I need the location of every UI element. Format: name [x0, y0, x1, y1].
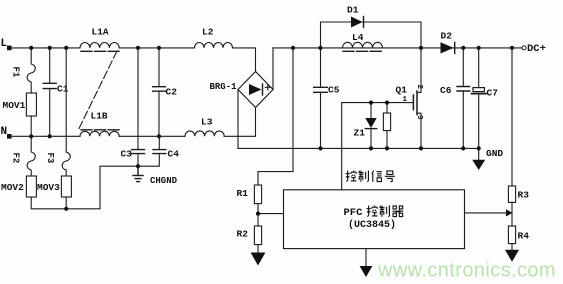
capacitor C6 [457, 48, 470, 148]
capacitor C7 (electrolytic) [472, 48, 486, 148]
svg-text:R2: R2 [237, 229, 249, 240]
svg-text:R1: R1 [237, 188, 249, 199]
wire R3 to R4 [511, 202, 513, 226]
diode D1 [351, 17, 364, 28]
svg-text:PFC: PFC [344, 207, 364, 219]
capacitor C3 (Y-cap from L) [132, 48, 145, 166]
svg-text:(UC3845): (UC3845) [348, 219, 396, 231]
PFC controller U1 box [284, 190, 465, 249]
svg-text:C3: C3 [121, 149, 133, 160]
wire MOV3 bottom [65, 197, 67, 209]
wire N rail to L3 [119, 135, 185, 137]
wire L rail left [9, 47, 80, 49]
varistor MOV3 [61, 176, 71, 197]
core of L1B (dashed) [81, 129, 119, 131]
svg-text:MOV2: MOV2 [1, 182, 24, 193]
wire control signal to PFC controller [341, 103, 343, 190]
inductor L4 [343, 42, 383, 48]
Chinese text 控制器 (controller suffix) [367, 206, 404, 217]
svg-text:BRG-1: BRG-1 [210, 82, 238, 92]
inductor L1A [80, 43, 119, 48]
svg-text:L4: L4 [352, 32, 364, 43]
node N (neutral input terminal) [7, 134, 12, 139]
terminal DC+ [522, 46, 526, 50]
resistor R4 [508, 226, 515, 244]
svg-text:L: L [1, 38, 8, 50]
svg-text:1: 1 [403, 96, 408, 104]
varistor MOV2 [26, 176, 36, 197]
ground below R4 [505, 244, 519, 262]
coupling core line L1A-L1B (dashed diagonal) [79, 51, 117, 129]
core of L4 (dashed) [343, 50, 383, 52]
svg-text:F1: F1 [11, 67, 21, 78]
svg-text:C4: C4 [168, 149, 180, 160]
svg-text:R3: R3 [518, 190, 530, 201]
svg-text:C2: C2 [166, 87, 178, 98]
resistor R3 [508, 186, 515, 202]
ground below PFC controller [360, 249, 373, 277]
wire DC+ rail [273, 47, 522, 49]
wire R3/R4 output divider [511, 48, 513, 186]
feedback arrowhead [506, 209, 512, 216]
svg-text:D1: D1 [347, 5, 359, 16]
fuse F2 [27, 136, 35, 176]
svg-text:F3: F3 [45, 153, 55, 164]
wire bridge minus to DC- rail [238, 90, 479, 149]
svg-text:C6: C6 [440, 85, 452, 96]
node L (live input terminal) [7, 46, 12, 51]
resistor R1 [254, 185, 261, 204]
wire divider to PFC box [258, 213, 284, 215]
diode D1 bypass branch [321, 22, 422, 48]
svg-text:N: N [1, 126, 8, 138]
ground below R2 [251, 245, 266, 266]
capacitor C1 [43, 48, 56, 136]
diode D2 [441, 42, 455, 53]
gate resistor (unlabeled) [383, 103, 390, 149]
fuse F3 [62, 152, 70, 176]
wire L3 to bridge bottom [224, 108, 255, 137]
wire MOV bottoms to chassis node [31, 166, 138, 209]
fuse F1 [27, 48, 35, 93]
svg-text:L1A: L1A [92, 27, 109, 38]
svg-text:www.cntronics.com: www.cntronics.com [377, 260, 556, 282]
bridge plus sign [0, 0, 1, 1]
capacitor C2 (X-cap) [153, 48, 166, 136]
svg-text:DC+: DC+ [527, 43, 546, 55]
wire bridge plus up to DC+ rail [272, 48, 274, 90]
inductor L3 [185, 131, 224, 136]
bridge rectifier BRG-1 [238, 72, 273, 108]
capacitor C5 [314, 48, 328, 148]
svg-text:L1B: L1B [91, 111, 108, 122]
svg-text:C7: C7 [487, 88, 499, 99]
inductor L2 [195, 43, 233, 48]
wire R1 to R2 [257, 204, 259, 226]
svg-text:3: 3 [415, 115, 423, 120]
wire F3 tap from L rail [65, 48, 67, 152]
wire MOV1 to N rail [30, 116, 32, 136]
ground GND [472, 148, 485, 170]
wire N rail left [9, 135, 80, 137]
Chinese text 控制信号 (control signal) [346, 171, 395, 182]
core of L1A (dashed) [81, 50, 119, 52]
svg-text:C5: C5 [328, 85, 340, 96]
svg-text:MOV3: MOV3 [37, 182, 60, 193]
svg-text:L2: L2 [202, 27, 214, 38]
capacitor C4 (Y-cap from N) [138, 136, 166, 166]
svg-text:Q1: Q1 [396, 85, 408, 96]
wire L rail middle [119, 47, 194, 49]
svg-text:C1: C1 [57, 84, 69, 95]
wire L2 to bridge top [233, 48, 256, 72]
resistor R2 [254, 226, 261, 245]
varistor MOV1 [26, 93, 36, 116]
wire R1 sense tap [258, 48, 293, 185]
chassis ground CHGND [133, 166, 143, 181]
svg-text:MOV1: MOV1 [3, 100, 26, 111]
svg-text:2: 2 [415, 85, 423, 90]
zener Z1 [365, 103, 376, 149]
svg-text:CHGND: CHGND [150, 176, 178, 186]
svg-text:R4: R4 [518, 231, 530, 242]
svg-text:D2: D2 [441, 31, 453, 42]
wire PFC feedback to divider [465, 212, 507, 214]
svg-text:Z1: Z1 [354, 128, 366, 139]
inductor L1B [80, 131, 119, 136]
transistor Q1 (MOSFET) [342, 48, 421, 148]
svg-text:L3: L3 [201, 117, 213, 128]
svg-text:GND: GND [486, 148, 503, 159]
svg-text:F2: F2 [11, 153, 21, 164]
